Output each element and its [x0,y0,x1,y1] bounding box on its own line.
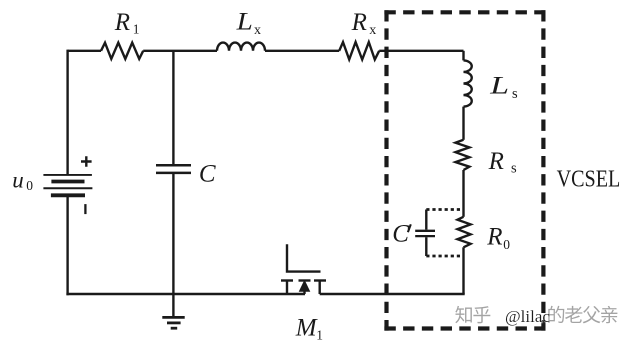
svg-text:C: C [392,221,409,248]
svg-text:0: 0 [503,237,510,252]
svg-text:R: R [351,9,367,36]
svg-text:L: L [489,73,509,100]
svg-text:VCSEL: VCSEL [557,166,621,192]
svg-text:R: R [488,148,504,175]
svg-text:1: 1 [133,22,140,37]
svg-text:C: C [199,161,216,188]
svg-text:x: x [254,23,261,38]
svg-text:s: s [511,160,517,176]
svg-text:M: M [295,315,318,342]
svg-text:x: x [369,23,376,38]
svg-text:0: 0 [26,178,33,193]
svg-text:u: u [12,168,23,193]
svg-text:R: R [486,223,502,250]
svg-text:1: 1 [316,328,323,343]
svg-text:R: R [114,9,130,36]
svg-text:L: L [235,9,252,36]
svg-text:@lilac: @lilac [505,307,550,326]
svg-text:s: s [512,86,518,102]
